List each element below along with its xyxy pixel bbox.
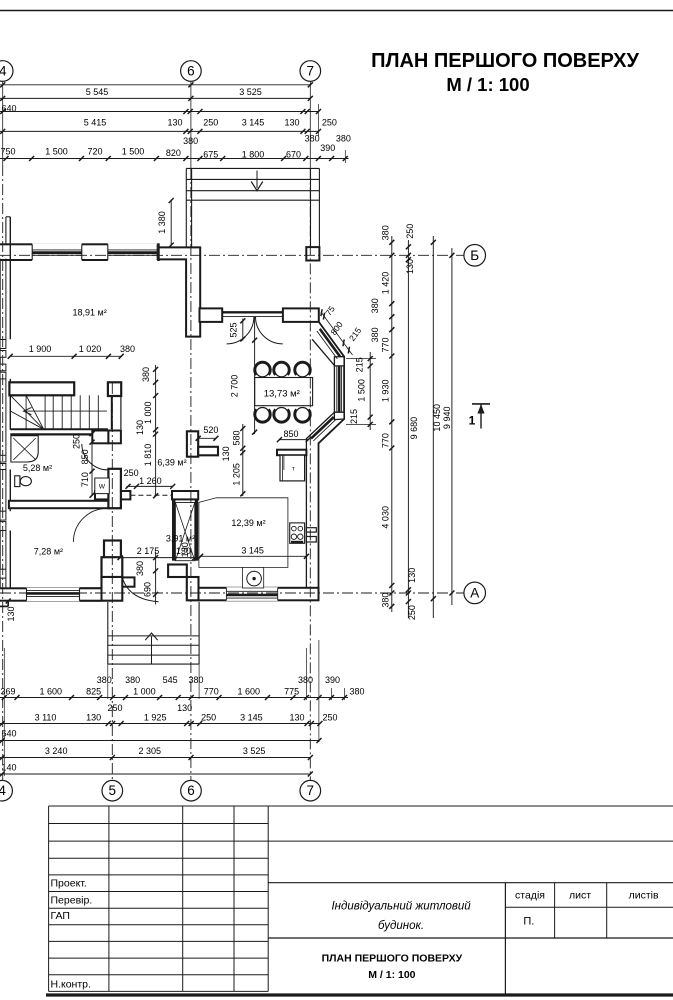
wall items on kitchen right wall: [306, 528, 316, 532]
svg-text:215: 215: [355, 357, 365, 372]
svg-text:1 800: 1 800: [242, 149, 265, 159]
svg-text:380: 380: [349, 687, 364, 697]
svg-text:250: 250: [322, 712, 337, 722]
svg-text:Н.контр.: Н.контр.: [51, 979, 91, 991]
svg-text:580: 580: [232, 430, 242, 445]
svg-text:18,91 м²: 18,91 м²: [72, 308, 106, 318]
svg-text:390: 390: [325, 675, 340, 685]
vert dim 380/1000/130/1810: [155, 365, 157, 496]
svg-text:770: 770: [381, 433, 391, 448]
dim row 1900/1020/380 room 18.91: [10, 355, 121, 357]
svg-text:3 145: 3 145: [240, 712, 263, 722]
svg-text:9 680: 9 680: [409, 417, 419, 440]
bay window glazing top diagonal: [317, 331, 337, 359]
svg-text:Б: Б: [470, 248, 479, 263]
svg-text:675: 675: [203, 149, 218, 159]
right dim chain 4: 10 450: [432, 236, 434, 618]
window bottom left: [27, 588, 80, 602]
svg-text:710: 710: [80, 472, 90, 487]
dim 1 380 terrace: [170, 200, 172, 246]
stair walk line with arrow: [26, 410, 107, 412]
dim 2 175 / 130: [120, 557, 199, 559]
svg-text:380: 380: [135, 561, 145, 576]
svg-text:6: 6: [187, 64, 195, 79]
grid bubble A right: [464, 582, 486, 604]
svg-text:1 000: 1 000: [133, 687, 156, 697]
svg-text:1 020: 1 020: [79, 344, 102, 354]
grid bubble 6 top: [181, 61, 202, 82]
svg-text:6,39 м²: 6,39 м²: [157, 458, 186, 468]
dim 520: [198, 437, 216, 439]
svg-text:1 600: 1 600: [238, 687, 261, 697]
dining chairs: [256, 363, 270, 377]
dim 850 bay: [279, 439, 308, 441]
top dim row 3: 5 415 / 130 / 250 / 3 145 / 130 / 250: [0, 111, 319, 113]
kitchen sink island: [242, 567, 263, 588]
svg-text:1 420: 1 420: [381, 272, 391, 295]
bath corner blocks: [92, 431, 108, 444]
top extension lines: [318, 104, 320, 136]
right extension lines from bay corners: [346, 358, 376, 360]
svg-text:Індивідуальний житловий: Індивідуальний житловий: [331, 901, 471, 913]
left wall window boxes (radiators): [0, 340, 6, 349]
svg-text:720: 720: [87, 147, 102, 157]
svg-text:7,28 м²: 7,28 м²: [34, 546, 63, 556]
bottom extension lines: [318, 640, 320, 742]
svg-text:1 900: 1 900: [29, 344, 52, 354]
entrance right wall block: [168, 565, 187, 578]
svg-text:520: 520: [203, 425, 218, 435]
svg-text:1 500: 1 500: [45, 147, 68, 157]
kitchen entry walls: [187, 431, 198, 456]
room 7.28 top wall: [9, 501, 121, 508]
bay corner blocks: [334, 357, 344, 366]
kitchen bottom wall: [199, 588, 319, 601]
svg-text:250: 250: [124, 468, 139, 478]
stair treads: [25, 395, 27, 429]
svg-text:1 930: 1 930: [381, 380, 391, 403]
svg-text:130: 130: [284, 117, 299, 127]
svg-text:215: 215: [349, 409, 359, 424]
title block bottom thick border: [46, 993, 673, 996]
svg-text:М / 1: 100: М / 1: 100: [368, 969, 415, 981]
double door to dining room: [222, 311, 283, 313]
svg-text:380: 380: [336, 133, 351, 143]
top dim row 1: 5 545 / 3 525: [0, 84, 310, 86]
sheet top border: [0, 10, 673, 12]
svg-text:130: 130: [135, 420, 145, 435]
svg-text:770: 770: [204, 687, 219, 697]
svg-text:380: 380: [381, 593, 391, 608]
svg-text:140: 140: [2, 763, 17, 773]
svg-text:825: 825: [86, 687, 101, 697]
dining table: [255, 378, 313, 406]
right dim chain 2: 380/1420/380/380/770/1930/770/4030/380: [391, 236, 393, 612]
svg-text:850: 850: [80, 449, 90, 464]
svg-text:Перевір.: Перевір.: [51, 894, 93, 906]
svg-text:130: 130: [6, 606, 16, 621]
svg-text:380: 380: [305, 133, 320, 143]
svg-text:1 600: 1 600: [40, 687, 63, 697]
washing machine W: [95, 478, 110, 494]
right dim chain 3: 250/130/9680/130/250: [407, 240, 409, 618]
grid line 7 (vertical): [309, 82, 311, 169]
svg-text:130: 130: [407, 568, 417, 583]
bay window glazing right side: [336, 366, 338, 412]
svg-text:ПЛАН ПЕРШОГО ПОВЕРХУ: ПЛАН ПЕРШОГО ПОВЕРХУ: [322, 953, 463, 965]
stair winder lines: [10, 395, 43, 429]
svg-text:250: 250: [201, 712, 216, 722]
shower cabin: [11, 436, 38, 462]
grid bubble 4 top: [0, 61, 13, 82]
grid line 6 (vertical): [190, 81, 192, 168]
wall below pier: [111, 396, 113, 429]
grid bubble 5 bottom: [102, 780, 123, 801]
svg-text:380: 380: [125, 675, 140, 685]
window top B: [108, 243, 157, 261]
window top A: [32, 243, 82, 261]
wall corner at grid 6: [159, 247, 201, 336]
floor drain circle: [247, 571, 262, 586]
vert dim 380/690 entrance: [155, 552, 157, 605]
svg-text:380: 380: [97, 675, 112, 685]
door bathroom: [82, 444, 109, 470]
bottom dim row 4: 3 240 / 2 305 / 3 525: [0, 757, 310, 759]
svg-text:листів: листів: [629, 890, 659, 902]
vert dim 580/130/1205: [242, 424, 244, 496]
hall top wall segments: [172, 491, 198, 499]
bottom dim row 2: [0, 723, 320, 725]
grid bubble 4 bottom: [0, 780, 12, 801]
vert dim 525: [242, 319, 244, 341]
svg-text:5,28 м²: 5,28 м²: [23, 463, 52, 473]
bay diagonal dim chain 75/800/215: [321, 312, 353, 355]
stair-side pier grid 5: [108, 382, 121, 396]
kitchen bottom window: [226, 587, 277, 601]
left exterior wall: [9, 217, 11, 339]
svg-text:7: 7: [307, 64, 315, 79]
section mark 1: [472, 403, 490, 405]
svg-text:9 940: 9 940: [442, 407, 452, 430]
svg-text:850: 850: [283, 429, 298, 439]
svg-text:12,39 м²: 12,39 м²: [231, 518, 265, 528]
svg-text:130: 130: [221, 446, 231, 461]
svg-text:250: 250: [407, 605, 417, 620]
svg-text:1 500: 1 500: [356, 379, 366, 402]
stair top wall: [9, 382, 74, 395]
svg-text:М / 1: 100: М / 1: 100: [446, 74, 529, 95]
grid bubble 7 top: [300, 61, 321, 82]
terrace down arrow: [256, 171, 258, 189]
grid5 wall lower piece: [104, 541, 121, 578]
bottom dim row 3: 11 640: [0, 740, 319, 742]
svg-text:т: т: [292, 467, 295, 473]
title block table: [49, 805, 269, 807]
svg-text:770: 770: [381, 337, 391, 352]
svg-text:130: 130: [180, 542, 190, 557]
svg-text:2 305: 2 305: [139, 746, 162, 756]
svg-text:4 030: 4 030: [381, 506, 391, 529]
top dim row 2: 11 640 overall: [0, 97, 310, 99]
svg-text:130: 130: [405, 259, 415, 274]
svg-text:380: 380: [120, 344, 135, 354]
svg-text:130: 130: [177, 703, 192, 713]
closet X brace: [175, 503, 194, 561]
svg-text:2 700: 2 700: [229, 375, 239, 398]
kitchen floor outline: [199, 498, 288, 568]
svg-text:4: 4: [0, 64, 7, 79]
closet walls: [172, 499, 175, 560]
stove: [290, 523, 305, 543]
dim 3 145 kitchen: [201, 555, 307, 557]
porch up arrow: [151, 637, 153, 664]
svg-text:будинок.: будинок.: [378, 920, 424, 932]
grid bubble 7 bottom: [300, 780, 321, 801]
svg-text:W: W: [99, 483, 106, 490]
svg-text:250: 250: [322, 117, 337, 127]
entrance door: [122, 577, 158, 602]
right dim chain: bay 215/1500/215: [369, 352, 371, 430]
svg-text:1 925: 1 925: [144, 712, 167, 722]
svg-text:1: 1: [469, 414, 476, 428]
grid bubble 6 bottom: [181, 780, 202, 801]
svg-text:13,73 м²: 13,73 м²: [264, 389, 300, 400]
kitchen counter top-right with sink: [277, 450, 306, 456]
svg-text:130: 130: [289, 712, 304, 722]
svg-text:1 205: 1 205: [232, 463, 242, 486]
grid line A (horizontal): [0, 592, 464, 594]
svg-text:380: 380: [370, 327, 380, 342]
svg-text:640: 640: [2, 104, 17, 114]
svg-text:ГАП: ГАП: [51, 910, 70, 922]
svg-text:775: 775: [284, 687, 299, 697]
stair bottom boundary: [10, 428, 108, 430]
door room 7.28: [73, 508, 107, 542]
svg-text:130: 130: [86, 712, 101, 722]
dim 1 260 hallway: [127, 485, 173, 487]
svg-text:10 450: 10 450: [432, 404, 442, 432]
dining room top wall: [200, 308, 223, 322]
vert dim 250/850/710 bathroom: [91, 434, 93, 496]
svg-text:3 145: 3 145: [242, 117, 265, 127]
svg-text:250: 250: [72, 434, 82, 449]
top dim row 4: [0, 130, 319, 132]
terrace outline: [186, 167, 319, 169]
grid line 5 (vertical): [111, 383, 113, 780]
bottom-left wall step: [0, 605, 8, 607]
svg-text:3 240: 3 240: [45, 746, 68, 756]
svg-text:7: 7: [307, 783, 315, 798]
porch steps: [107, 602, 109, 664]
svg-text:1 380: 1 380: [157, 211, 167, 234]
right dim chain 5: 9 940: [451, 248, 453, 605]
svg-text:250: 250: [203, 117, 218, 127]
dashed lintel over hall opening: [130, 494, 172, 496]
entrance left wall block: [81, 577, 122, 601]
svg-text:3 110: 3 110: [35, 712, 57, 722]
exterior wall top-left: [0, 244, 159, 260]
svg-text:А: А: [470, 586, 479, 601]
svg-text:лист: лист: [569, 890, 591, 902]
bottom exterior wall left: [0, 588, 102, 600]
bath top partition: [10, 433, 92, 435]
svg-text:250: 250: [107, 703, 122, 713]
svg-text:1 810: 1 810: [143, 444, 153, 467]
svg-text:3 525: 3 525: [243, 746, 266, 756]
svg-text:3 145: 3 145: [241, 545, 264, 555]
svg-text:690: 690: [143, 582, 153, 597]
svg-text:250: 250: [405, 224, 415, 239]
svg-text:545: 545: [163, 675, 178, 685]
grid5 wall middle piece: [108, 469, 121, 508]
svg-text:640: 640: [2, 729, 17, 739]
svg-text:670: 670: [286, 149, 301, 159]
bay window glazing bottom diagonal: [309, 415, 332, 436]
svg-text:ПЛАН ПЕРШОГО ПОВЕРХУ: ПЛАН ПЕРШОГО ПОВЕРХУ: [371, 50, 639, 72]
svg-text:4: 4: [0, 783, 6, 798]
bottom dim row 5: 11 140: [0, 773, 310, 775]
grid line 4 (vertical): [2, 82, 4, 166]
svg-text:820: 820: [166, 148, 181, 158]
svg-text:1 260: 1 260: [139, 476, 162, 486]
svg-text:3,91 м²: 3,91 м²: [166, 534, 195, 544]
svg-text:525: 525: [228, 322, 238, 337]
vert dim 2 700 at door mullion: [254, 317, 256, 434]
svg-text:130: 130: [167, 117, 182, 127]
svg-text:5: 5: [109, 783, 117, 798]
top dim row 5: 750/1500/720/1500/820/675/1800/670...: [0, 158, 349, 160]
svg-text:1 500: 1 500: [122, 147, 145, 157]
svg-text:380: 380: [298, 675, 313, 685]
svg-text:5 545: 5 545: [86, 87, 109, 97]
toilet: [15, 476, 20, 487]
svg-text:5 415: 5 415: [84, 117, 107, 127]
svg-text:380: 380: [381, 225, 391, 240]
bottom dim row 1: [0, 697, 348, 699]
svg-text:380: 380: [141, 367, 151, 382]
grid bubble B right: [464, 245, 486, 267]
svg-text:3 525: 3 525: [239, 87, 262, 97]
svg-text:6: 6: [187, 783, 195, 798]
svg-text:П.: П.: [523, 916, 534, 928]
column pier at grid B/7: [306, 247, 319, 260]
bay window walls: [319, 322, 345, 600]
svg-text:380: 380: [370, 298, 380, 313]
svg-text:Проект.: Проект.: [51, 878, 87, 890]
svg-text:390: 390: [320, 143, 335, 153]
grid line B (horizontal): [0, 254, 464, 256]
svg-text:стадія: стадія: [515, 890, 545, 902]
